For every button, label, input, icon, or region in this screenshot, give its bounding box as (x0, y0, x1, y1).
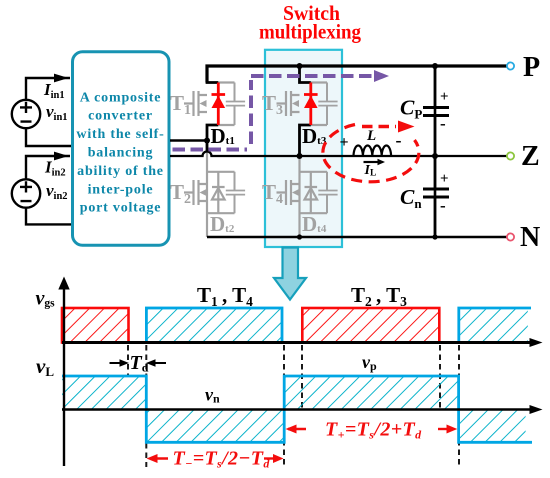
svg-text:vn: vn (205, 385, 220, 406)
svg-text:Dt1: Dt1 (211, 124, 235, 148)
vgs pulse cyan 1 (T1,T4 on) (146, 308, 282, 343)
svg-text:T+=Ts/2+Td: T+=Ts/2+Td (325, 419, 422, 442)
transistor T4 (gray mosfet) (277, 156, 328, 237)
vgs pulse red 2 (T2,T3 on) (302, 308, 439, 343)
svg-text:Dt2: Dt2 (210, 212, 235, 236)
purple dashed power-flow path (173, 76, 373, 150)
voltage source Vin2 (12, 179, 40, 207)
snubber capacitor of T2 (gray) (226, 172, 245, 213)
vgs pulse red 1 (T2,T3 previous) (62, 308, 129, 343)
svg-text:-: - (396, 130, 402, 150)
axis: vgs horizontal (62, 341, 530, 344)
big cyan arrow to timing diagram (274, 248, 306, 300)
svg-text:IL: IL (364, 163, 377, 179)
right bus wire (434, 66, 437, 237)
svg-text:multiplexing: multiplexing (259, 20, 361, 44)
diode Dt3 (red, conducting) (304, 83, 318, 126)
svg-text:T2: T2 (170, 180, 191, 207)
svg-text:port voltage: port voltage (80, 201, 162, 216)
svg-text:vgs: vgs (36, 288, 56, 310)
red dashed circulating-current loop (323, 125, 419, 182)
svg-text:vL: vL (36, 354, 54, 379)
inductor L coil (354, 145, 392, 156)
node: T1-T2 midpoint junction dot (204, 138, 210, 144)
svg-text:-: - (440, 196, 446, 215)
svg-text:T−=Ts/2−Td: T−=Ts/2−Td (173, 448, 271, 471)
svg-text:Iin2: Iin2 (44, 158, 66, 179)
transistor T2 (gray mosfet) (184, 150, 235, 237)
diode Dt2 (gray) (212, 172, 225, 213)
arrow: Iin1 current direction (54, 74, 69, 83)
svg-text:A composite: A composite (80, 90, 162, 105)
snubber capacitor of T1 (gray) (226, 83, 245, 126)
svg-text:T2 , T3: T2 , T3 (351, 283, 407, 309)
vL waveform hatch neg2 (459, 410, 526, 443)
axis: vL horizontal (62, 408, 530, 411)
node: T3-T4 midpoint junction dot (297, 153, 303, 159)
svg-text:+: + (440, 89, 449, 105)
node: right bus Z junction (432, 153, 438, 159)
vL waveform hatch pos1 (62, 376, 146, 410)
svg-text:Z: Z (521, 141, 540, 172)
wire: T3 drain/source connections (black conduction path) (300, 66, 311, 156)
arrow: inductor current direction (364, 161, 380, 163)
axis: vertical (63, 286, 65, 466)
terminal P (507, 62, 514, 69)
svg-text:with the self-: with the self- (76, 127, 164, 142)
measure arrows T+ = Ts/2 + Td (red) (288, 428, 306, 430)
svg-text:T1 , T4: T1 , T4 (197, 283, 253, 309)
svg-text:ability of the: ability of the (77, 164, 164, 179)
svg-text:N: N (520, 222, 540, 253)
wire: source1 loop (26, 78, 72, 146)
bottom bus wire (N rail) (207, 236, 507, 239)
node: right bus N junction (432, 234, 437, 239)
dashed guide line at x=302 (301, 345, 303, 408)
top bus wire (P rail) (207, 66, 507, 83)
transistor T3 (gray mosfet) (277, 83, 328, 126)
vgs pulse cyan 2 (T1,T4 next) (459, 308, 528, 343)
node: N bus T4 junction dot (297, 234, 302, 239)
vL waveform hatch neg1 (146, 410, 284, 443)
converter box text (76, 90, 164, 215)
svg-text:L: L (366, 128, 376, 144)
svg-text:P: P (523, 52, 540, 83)
capacitor CP (423, 66, 449, 156)
dashed guide line at x=440 (439, 345, 441, 408)
voltage source Vin1 (12, 100, 40, 128)
snubber capacitor of T3 (gray) (318, 83, 337, 126)
arrow: Iin2 current direction (54, 152, 69, 161)
dashed guide line at x=284 (283, 345, 285, 467)
svg-text:T1: T1 (170, 91, 191, 118)
Z bus wire with hop over T1 leg (170, 152, 507, 157)
transistor T1 (gray mosfet) (184, 83, 235, 126)
dashed guide line at x=128 (127, 345, 129, 375)
arrow: circulating current direction (red) (362, 125, 396, 128)
vL waveform outline (cyan square wave) (62, 376, 532, 442)
dashed guide line at x=459 (458, 345, 460, 467)
svg-text:vin2: vin2 (46, 181, 68, 202)
terminal N (507, 233, 514, 240)
vL waveform hatch pos2 (284, 376, 458, 410)
svg-text:Cn: Cn (400, 185, 422, 211)
svg-text:+: + (340, 134, 349, 151)
snubber capacitor of T4 (gray) (318, 172, 337, 213)
svg-text:-: - (440, 114, 446, 133)
switch-multiplexing highlight box (265, 50, 342, 247)
diode Dt4 (gray) (305, 172, 318, 213)
svg-text:+: + (440, 171, 449, 187)
svg-text:CP: CP (400, 96, 422, 122)
svg-text:balancing: balancing (88, 146, 154, 161)
svg-text:vp: vp (362, 352, 377, 373)
wire: T1 drain/source connections (black conduction path) (207, 66, 218, 151)
node: top bus T3 junction dot (297, 63, 303, 69)
svg-text:vin1: vin1 (46, 102, 68, 123)
capacitor Cn (423, 156, 449, 237)
svg-text:inter-pole: inter-pole (88, 182, 154, 197)
node: right bus P junction (432, 63, 438, 69)
wire: source2 loop (26, 156, 72, 224)
svg-text:Iin1: Iin1 (43, 80, 65, 101)
diode Dt1 (red, conducting) (212, 83, 226, 126)
dashed guide line at x=146.3 (145, 345, 147, 467)
wire: converter box to T1-T2 midpoint (170, 139, 207, 142)
svg-text:converter: converter (88, 109, 153, 124)
converter box U1 (73, 52, 170, 246)
arrow: purple power-flow arrowhead (374, 70, 389, 82)
terminal Z (507, 152, 514, 159)
title label: Switch multiplexing (259, 1, 361, 44)
measure arrows T- = Ts/2 - Td (red) (151, 457, 168, 459)
dead time marker arrows Td (110, 362, 123, 364)
